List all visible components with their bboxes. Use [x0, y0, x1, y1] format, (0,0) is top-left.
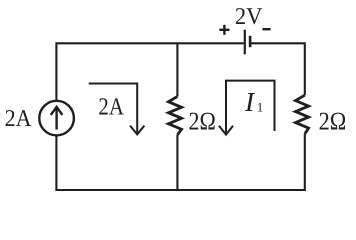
svg-text:2A: 2A: [98, 94, 124, 121]
svg-text:2A: 2A: [5, 106, 33, 132]
svg-text:2V: 2V: [235, 4, 263, 30]
svg-text:2Ω: 2Ω: [319, 107, 347, 136]
svg-text:I: I: [244, 86, 256, 117]
svg-text:2Ω: 2Ω: [189, 107, 216, 136]
svg-text:1: 1: [257, 100, 264, 115]
